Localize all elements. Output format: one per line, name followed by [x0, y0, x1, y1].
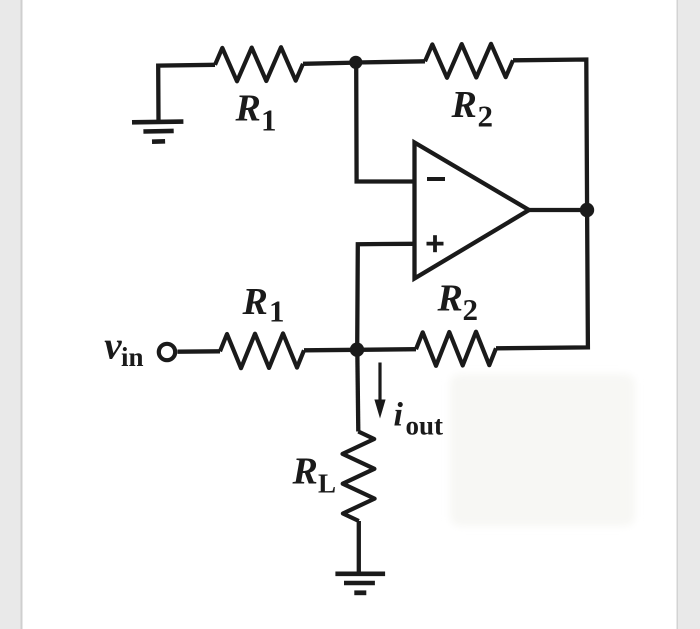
wire node B to RL: [357, 350, 358, 432]
node A (top junction): [349, 56, 362, 69]
wire RL to ground: [357, 521, 361, 574]
ground (bottom): [335, 574, 385, 593]
svg-text:1: 1: [269, 294, 285, 329]
svg-text:L: L: [318, 469, 336, 499]
svg-text:R: R: [437, 278, 463, 320]
svg-text:1: 1: [261, 103, 277, 138]
wire R1 to node A: [303, 63, 356, 64]
wire op-amp noninverting input to node B: [357, 244, 414, 350]
wire node A to R2: [356, 61, 425, 62]
node C (output junction): [580, 203, 594, 217]
node B (bottom junction): [350, 343, 364, 357]
wire R2 to output node (right rail): [513, 60, 587, 211]
svg-text:in: in: [121, 342, 144, 372]
wire node C down right rail to R2 bottom: [496, 210, 588, 348]
op-amp U1: [415, 143, 530, 279]
svg-text:out: out: [406, 411, 444, 441]
wire ground to R1: [158, 65, 215, 122]
op-amp inverting pin (-): [427, 177, 445, 181]
svg-text:R: R: [242, 281, 268, 323]
wire op-amp output to node C: [529, 208, 587, 212]
svg-text:2: 2: [463, 292, 479, 327]
svg-text:i: i: [394, 397, 404, 434]
wire node A to op-amp inverting input: [356, 63, 414, 182]
resistor R2 (top): [425, 44, 513, 78]
svg-text:2: 2: [478, 99, 494, 134]
op-amp noninverting pin (+): [427, 235, 444, 252]
resistor RL: [343, 432, 375, 522]
svg-text:R: R: [292, 451, 318, 493]
svg-text:v: v: [104, 325, 122, 368]
svg-text:R: R: [235, 88, 261, 130]
arrow i_out: [374, 363, 385, 419]
resistor R1 (bottom): [220, 333, 304, 368]
ground (top-left): [132, 122, 183, 142]
resistor R1 (top): [215, 47, 303, 81]
wire R2 bottom to node B: [357, 347, 416, 352]
wire v_in to R1 bottom: [178, 349, 221, 354]
wire R1 bottom to node B: [304, 348, 357, 353]
resistor R2 (bottom): [416, 332, 496, 366]
svg-text:R: R: [451, 84, 477, 126]
terminal v_in (open circle): [159, 344, 175, 360]
